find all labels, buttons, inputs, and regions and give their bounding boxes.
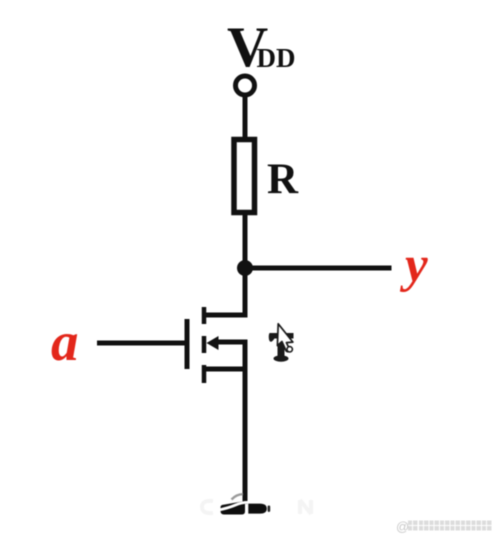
svg-text:@: @ — [396, 519, 409, 534]
svg-text:R: R — [267, 156, 299, 203]
svg-text:DD: DD — [257, 43, 296, 73]
svg-text:a: a — [51, 311, 79, 372]
svg-text:y: y — [399, 237, 428, 293]
